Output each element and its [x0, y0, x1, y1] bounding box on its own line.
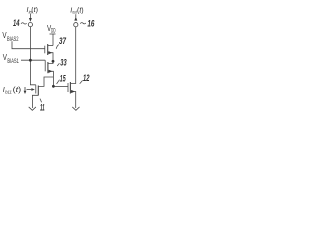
svg-text:DD: DD [51, 29, 56, 35]
svg-text:15: 15 [60, 73, 66, 83]
svg-text:14: 14 [13, 18, 20, 28]
svg-text:BIAS1: BIAS1 [7, 59, 19, 65]
svg-text:16: 16 [87, 18, 95, 28]
svg-text:BIAS2: BIAS2 [7, 37, 19, 43]
svg-text:(t): (t) [31, 7, 38, 14]
svg-text:33: 33 [60, 57, 66, 67]
svg-text:12: 12 [83, 73, 90, 83]
svg-text:(t): (t) [13, 87, 22, 94]
svg-text:b11: b11 [5, 89, 12, 94]
svg-text:11: 11 [40, 102, 45, 112]
svg-text:(t): (t) [77, 7, 84, 14]
svg-text:37: 37 [59, 36, 67, 46]
